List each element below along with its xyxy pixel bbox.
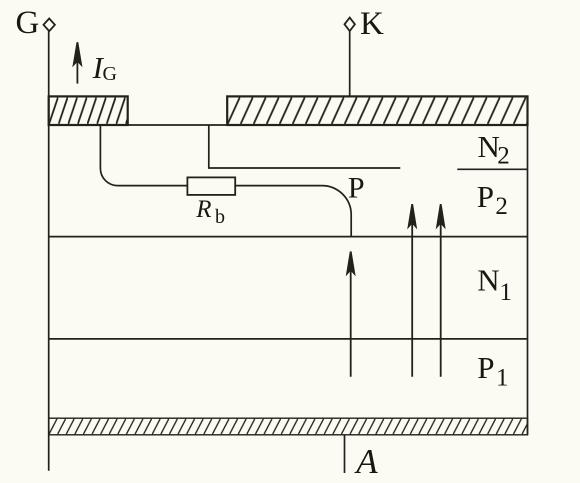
- svg-text:P: P: [477, 179, 494, 214]
- svg-text:P: P: [477, 350, 494, 385]
- svg-text:2: 2: [497, 142, 510, 169]
- svg-text:b: b: [215, 206, 225, 228]
- svg-text:P: P: [348, 171, 365, 204]
- svg-text:R: R: [195, 196, 211, 223]
- svg-text:G: G: [103, 63, 117, 85]
- svg-text:K: K: [360, 6, 384, 42]
- svg-text:A: A: [354, 442, 378, 481]
- svg-text:1: 1: [500, 279, 513, 306]
- svg-text:1: 1: [496, 364, 509, 391]
- svg-text:G: G: [16, 5, 40, 41]
- svg-text:N: N: [477, 263, 499, 298]
- svg-text:2: 2: [495, 193, 508, 220]
